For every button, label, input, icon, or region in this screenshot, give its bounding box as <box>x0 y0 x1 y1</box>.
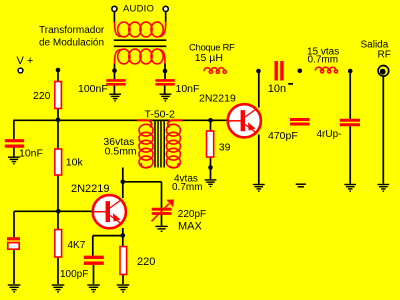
wire: 4K7 bottom to ground <box>57 257 59 284</box>
ground under 47Up <box>344 185 356 192</box>
transformer T-50-2 core lines <box>155 121 164 168</box>
capacitor electrolytic left plates <box>7 237 20 249</box>
svg-text:10nF: 10nF <box>19 148 43 160</box>
ground under Salida column <box>377 185 389 192</box>
ground mini under 470pF <box>296 184 306 187</box>
svg-text:T-50-2: T-50-2 <box>145 109 176 121</box>
transformer T-50-2 left winding <box>137 120 153 168</box>
node dot secondary right <box>163 69 168 74</box>
wire: Q2 emitter down to 220 resistor <box>122 228 124 247</box>
ground under 100pF <box>87 285 100 292</box>
wire: Q1 emitter vertical to ground <box>258 135 260 184</box>
svg-text:Transformador: Transformador <box>39 25 105 36</box>
trimmer capacitor 220pF plates <box>152 209 172 213</box>
terminal V+ <box>18 68 23 73</box>
capacitor 10n series plates (vertical) <box>276 61 282 81</box>
wire: rail node down to 39 resistor <box>210 120 212 131</box>
svg-text:0.5mm: 0.5mm <box>105 145 137 157</box>
svg-text:10nF: 10nF <box>176 83 200 95</box>
wire: 100pF column down to plates <box>92 236 94 256</box>
svg-text:220: 220 <box>137 256 155 268</box>
trimmer arrow <box>152 200 175 222</box>
wire: Salida RF column to ground <box>382 77 384 184</box>
terminal AUDIO right <box>163 6 168 11</box>
wire: left column from base line down to electrolytic cap <box>13 211 15 237</box>
wire: trimmer column down from tank line <box>161 182 163 208</box>
transistor Q1 2N2219 (top) <box>228 104 261 137</box>
resistor R 39 <box>207 131 214 157</box>
ground under 4K7 <box>52 285 65 292</box>
node dot rail at x58 <box>56 118 61 123</box>
node dot floating above 470pF <box>298 69 303 74</box>
wire: trimmer bottom stem to ground <box>161 215 163 226</box>
svg-text:10k: 10k <box>66 157 84 169</box>
ground under 39 resistor <box>205 180 217 187</box>
wire: base line of Q2 horizontal y=211 <box>14 210 93 212</box>
svg-text:V +: V + <box>17 55 34 67</box>
node dot secondary left <box>112 68 117 73</box>
capacitor 47Up plates <box>340 120 360 125</box>
transformer T-50-2 right winding <box>166 120 182 168</box>
svg-text:0.7mm: 0.7mm <box>172 182 203 193</box>
svg-text:470pF: 470pF <box>268 130 298 142</box>
svg-text:MAX: MAX <box>178 220 203 232</box>
svg-text:4rUp-: 4rUp- <box>317 129 342 140</box>
svg-text:2N2219: 2N2219 <box>71 183 110 195</box>
node dot rail at 39 resistor <box>208 118 213 123</box>
transformer TR1 secondary winding <box>115 49 166 64</box>
ground under trimmer <box>155 226 167 231</box>
wire: AUDIO left terminal lead down <box>113 12 115 22</box>
wire: left column down from rail to 10nF cap <box>13 120 15 140</box>
resistor R 220 (emitter) <box>120 247 127 275</box>
svg-text:220pF: 220pF <box>178 209 206 220</box>
ground under 10nF <box>160 94 172 101</box>
svg-text:2N2219: 2N2219 <box>199 93 236 105</box>
node dot Q2 base <box>56 209 61 214</box>
inductor choque RF coil <box>204 68 226 74</box>
wire: 47Up column from node to ground <box>349 71 351 119</box>
wire: 10k bottom down to base node <box>57 175 59 211</box>
wire: resistor 220 bottom through rail to 10k top <box>57 109 59 150</box>
capacitor 10nF plates <box>155 80 174 84</box>
transistor Q2 2N2219 (bottom) <box>93 195 126 228</box>
svg-text:100nF: 100nF <box>78 83 108 95</box>
svg-text:RF: RF <box>378 50 391 61</box>
ground bottom left column <box>8 285 21 292</box>
wire: secondary left lead down to node <box>114 63 116 80</box>
capacitor 100nF plates <box>106 80 125 84</box>
node dot below 39 resistor <box>208 165 213 170</box>
wire: base node down to 4K7 top <box>57 211 59 229</box>
wire: emitter 220 resistor bottom to ground <box>122 275 124 285</box>
wire: 39 resistor bottom to node and ground <box>210 157 212 179</box>
capacitor 100pF plates <box>84 257 104 263</box>
node dot Q1 collector top <box>256 69 261 74</box>
inductor 15 vtas coil <box>315 67 337 73</box>
svg-text:15 µH: 15 µH <box>195 52 223 64</box>
wire: tank bottom line y=182 <box>123 181 162 183</box>
terminal Salida RF connector <box>378 66 389 77</box>
terminal AUDIO left <box>112 6 117 11</box>
transformer TR1 core lines <box>114 40 167 46</box>
svg-text:AUDIO: AUDIO <box>123 4 154 15</box>
transformer TR1 audio: primary winding <box>115 22 166 37</box>
wire: left 10nF stem to ground <box>13 148 15 157</box>
node dot Q2 emitter <box>121 233 126 238</box>
wire: Q2 collector vertical with stub to tank line <box>122 168 124 199</box>
wire: 100pF bottom stem to ground <box>93 265 95 284</box>
wire: emitter node left to 100pF corner <box>93 235 123 237</box>
svg-text:0.7mm: 0.7mm <box>308 55 339 66</box>
wire: 10nF stem to ground <box>164 85 166 94</box>
ground under Q1 emitter <box>253 185 265 192</box>
node dot Q2 collector at tank line <box>121 180 126 185</box>
svg-text:220: 220 <box>33 90 51 102</box>
wire: 100nF stem to ground <box>113 85 115 94</box>
svg-text:4K7: 4K7 <box>68 240 86 251</box>
wire: node dot down to resistor 220 top <box>57 70 59 82</box>
ground under 100nF <box>109 94 121 101</box>
node dot above 220 bias resistor <box>56 68 61 73</box>
svg-text:100pF: 100pF <box>60 269 88 280</box>
capacitor 470pF plates <box>290 120 310 125</box>
wire: electrolytic cap bottom to ground <box>13 250 15 284</box>
wire: AUDIO right terminal lead down <box>165 12 167 22</box>
ground under emitter 220 <box>117 285 130 292</box>
svg-text:39: 39 <box>219 141 231 153</box>
capacitor left 10nF plates <box>5 141 24 146</box>
svg-text:de Modulación: de Modulación <box>39 38 104 49</box>
wire: secondary right lead down to node <box>164 63 166 80</box>
wire: Q1 collector vertical from top node <box>258 71 260 108</box>
resistor R 10k <box>55 149 62 175</box>
svg-text:10n: 10n <box>268 83 286 95</box>
ground under left 10nF <box>8 157 20 164</box>
node dot above 47Up <box>348 69 353 74</box>
resistor R 220 (bias top) <box>55 82 62 109</box>
resistor R 4K7 <box>55 230 62 258</box>
wire: base rail horizontal y=120 <box>14 119 228 121</box>
